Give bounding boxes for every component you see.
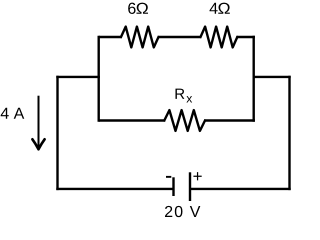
current value label 4 A (1, 108, 25, 119)
wire: bottom left segment (to battery negative) (56, 188, 173, 190)
wire: right stub (junction B to outer loop) (253, 76, 291, 78)
wire: inner-left vertical (junction A to middle branch) (97, 36, 99, 122)
wire: left stub (outer loop to junction A) (56, 76, 100, 78)
current arrow 4A: head (32, 139, 44, 149)
resistor 6Ω (121, 27, 159, 48)
wire: inner-right vertical (junction B to middle branch) (252, 36, 254, 122)
wire: top branch left lead (99, 36, 122, 38)
label 6Ω (128, 3, 148, 14)
wire: outer-right vertical (288, 76, 290, 190)
wire: middle branch right lead (204, 119, 255, 121)
resistor Rx (164, 110, 205, 131)
resistor 4Ω (201, 27, 238, 48)
battery polarity label + (193, 172, 201, 180)
battery polarity label - (166, 176, 171, 178)
label 4Ω (210, 3, 230, 14)
battery value label 20 V (165, 206, 200, 217)
label Rx (175, 89, 192, 103)
battery 20V: negative plate (short) (172, 177, 174, 196)
wire: bottom right segment (from battery positive) (190, 188, 291, 190)
wire: middle branch left lead (99, 119, 166, 121)
wire: top branch middle segment (158, 36, 202, 38)
wire: outer-left vertical (56, 76, 58, 190)
battery 20V: positive plate (long) (189, 172, 191, 201)
current arrow 4A: shaft (38, 96, 40, 149)
wire: top branch right lead (236, 36, 255, 38)
